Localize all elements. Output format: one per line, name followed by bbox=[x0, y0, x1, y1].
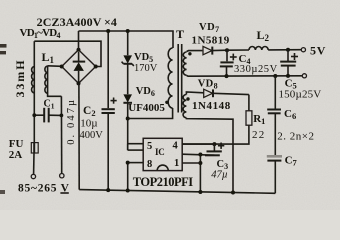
wire: R1 bottom to control node bbox=[182, 125, 249, 144]
wire: IC pin8 to ground column bbox=[128, 162, 144, 164]
wire: L2 to +5V terminal bbox=[268, 49, 301, 51]
svg-text:8: 8 bbox=[147, 159, 152, 170]
wire: bias bottom return to ground rail bbox=[186, 118, 233, 193]
svg-text:10µ: 10µ bbox=[80, 117, 97, 129]
svg-text:5: 5 bbox=[147, 141, 152, 152]
node: bridge bottom vertex bbox=[77, 81, 81, 85]
svg-text:TOP210PFI: TOP210PFI bbox=[133, 175, 193, 189]
node: VD7 output junction bbox=[225, 48, 229, 52]
C5 plus sign bbox=[291, 56, 298, 58]
diode VD6 bbox=[123, 94, 132, 102]
capacitor C2 bbox=[102, 108, 115, 110]
transformer T primary winding bbox=[168, 48, 172, 108]
svg-text:0. 047µ: 0. 047µ bbox=[66, 98, 77, 145]
inductor L1 winding A (on line wire) bbox=[32, 66, 35, 92]
wire: AC line left vertical (fuse column) bbox=[33, 41, 35, 142]
svg-text:T: T bbox=[176, 27, 184, 41]
resistor R1 bbox=[246, 111, 252, 125]
zener diode VD5 bbox=[123, 55, 132, 63]
node: C5 bottom junction bbox=[286, 74, 290, 78]
C3 plus sign bbox=[218, 145, 224, 147]
svg-text:1N4148: 1N4148 bbox=[192, 100, 231, 112]
wire: bridge top vertex up to DC+ rail bbox=[78, 31, 80, 50]
node: bias return rail junction bbox=[231, 191, 235, 195]
node: clamp/primary/drain junction bbox=[126, 117, 130, 121]
diode VD8 1N4148 bbox=[204, 89, 213, 97]
node: C6 column junction on return rail bbox=[273, 74, 277, 78]
inductor L2 bbox=[249, 47, 268, 50]
node: control node junction bbox=[212, 142, 216, 146]
node: C5 top junction bbox=[286, 48, 290, 52]
node: pin8 corner junction bbox=[126, 161, 130, 165]
node: C4 bottom junction bbox=[225, 74, 229, 78]
node: primary phase dot bbox=[165, 101, 168, 104]
svg-text:33mH: 33mH bbox=[13, 59, 27, 98]
svg-text:170V: 170V bbox=[134, 63, 158, 74]
wire: drain column to IC pin5 bbox=[128, 143, 144, 145]
wire: AC neutral vertical bbox=[60, 96, 62, 173]
wire: VD8 to R1 bbox=[248, 95, 250, 111]
bridge inner diode symbol bbox=[78, 52, 80, 62]
wire: top jog from line column to bridge right vertex bbox=[34, 41, 101, 66]
wire: C3 bottom / source line to IC bbox=[182, 154, 214, 155]
capacitor C4 bbox=[226, 50, 228, 61]
svg-text:UF4005: UF4005 bbox=[128, 102, 165, 114]
wire: clamp column VD5 VD6 bbox=[127, 31, 129, 55]
node: C2 bottom rail junction bbox=[106, 188, 110, 192]
terminal: AC input right bbox=[60, 174, 64, 178]
capacitor C5 bbox=[287, 50, 289, 61]
node: C1 right junction bbox=[60, 114, 64, 118]
svg-text:5V: 5V bbox=[310, 44, 326, 58]
wire: secondary top to VD7 bbox=[187, 50, 203, 53]
wire: secondary bottom to output return rail bbox=[187, 75, 303, 78]
svg-text:150µ25V: 150µ25V bbox=[279, 88, 322, 100]
node: bridge top vertex bbox=[77, 48, 81, 52]
wire: IC pin1 stub bbox=[182, 162, 200, 164]
fuse FU bbox=[31, 143, 38, 153]
node: C1 left junction bbox=[32, 113, 36, 117]
capacitor C6 bbox=[267, 109, 281, 111]
wire: L1 winding B top to bridge left vertex bbox=[48, 65, 62, 68]
node: bridge right vertex bbox=[94, 65, 98, 69]
svg-text:2. 2n×2: 2. 2n×2 bbox=[277, 131, 314, 143]
terminal: output return bbox=[302, 74, 306, 78]
terminal: AC input left bbox=[31, 174, 35, 178]
diode VD7 1N5819 bbox=[203, 46, 212, 54]
svg-text:IC: IC bbox=[155, 147, 164, 157]
bridge rectifier VD1-VD4 diamond bbox=[62, 50, 96, 84]
node: source column pin1 junction bbox=[198, 161, 202, 165]
node: clamp top rail junction bbox=[126, 29, 130, 33]
wire: C2 column bbox=[107, 31, 109, 108]
transformer core bbox=[177, 44, 179, 113]
svg-text:400V: 400V bbox=[80, 130, 104, 141]
node: C2 top rail junction bbox=[106, 29, 110, 33]
node: bias winding phase dot bbox=[186, 97, 189, 100]
wire: bias top to VD8 bbox=[186, 92, 203, 95]
svg-text:1: 1 bbox=[174, 158, 179, 169]
wire: C6/C7 column bbox=[274, 76, 276, 109]
svg-text:47µ: 47µ bbox=[211, 170, 228, 181]
inductor L1 winding B bbox=[47, 66, 49, 94]
IC U1 TOP210PFI box bbox=[143, 138, 182, 170]
node: source column top junction bbox=[198, 153, 202, 157]
capacitor C3 bbox=[213, 144, 215, 150]
svg-text:4: 4 bbox=[173, 140, 179, 151]
wire: DC- bottom rail bbox=[79, 190, 275, 194]
capacitor C1 bbox=[34, 114, 44, 116]
C2 plus sign bbox=[111, 100, 117, 102]
wire: DC+ top rail bbox=[79, 31, 174, 48]
wire: bridge bottom vertex down to DC- rail bbox=[78, 83, 80, 189]
node: source column rail junction bbox=[198, 190, 202, 194]
wire: L1 winding B bottom jog to neutral column bbox=[48, 94, 62, 97]
terminal: +5V output bbox=[301, 48, 305, 52]
transformer secondary winding (output) bbox=[183, 52, 186, 75]
capacitor C7 bbox=[267, 155, 282, 158]
wire: primary bottom to clamp junction bbox=[128, 108, 173, 119]
wire: IC pin4 control stub bbox=[182, 143, 214, 145]
transformer bias winding bbox=[183, 94, 186, 117]
wire: VD7 node to L2 bbox=[227, 49, 249, 51]
wire: source column to ground rail bbox=[199, 155, 201, 193]
svg-text:2A: 2A bbox=[9, 149, 22, 161]
IC bottom notch bbox=[157, 165, 168, 170]
svg-text:VD1~VD4: VD1~VD4 bbox=[20, 27, 61, 40]
node: secondary output phase dot bbox=[188, 52, 191, 55]
scan smudge left edge bbox=[0, 44, 7, 48]
svg-text:1N5819: 1N5819 bbox=[192, 35, 230, 47]
svg-text:22: 22 bbox=[252, 129, 266, 141]
svg-text:330µ25V: 330µ25V bbox=[234, 64, 278, 75]
C4 plus sign bbox=[230, 56, 237, 58]
node: bridge left vertex bbox=[60, 65, 64, 69]
node: drain column rail junction bbox=[126, 189, 130, 193]
